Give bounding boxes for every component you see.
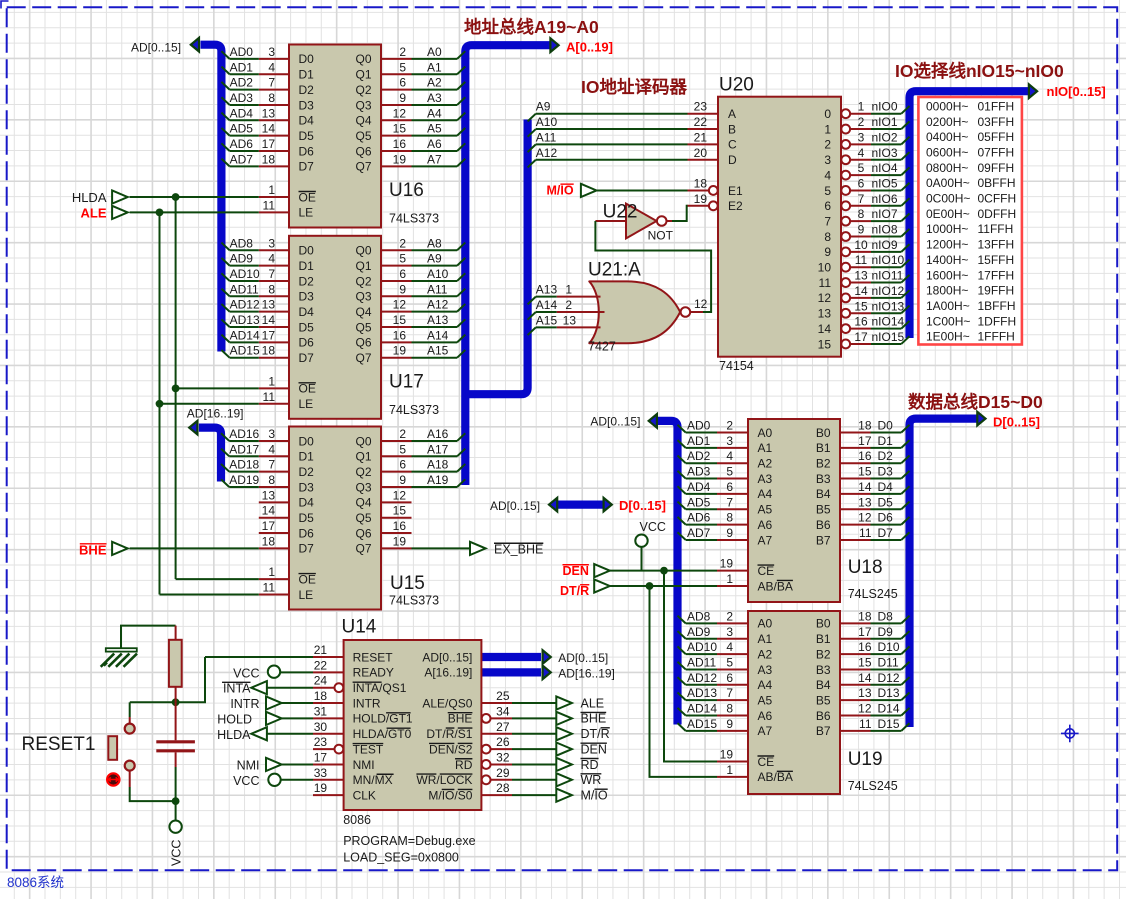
svg-text:Q7: Q7 — [355, 160, 371, 174]
wire A19 — [412, 486, 458, 488]
bus tap AD19 — [221, 479, 229, 487]
svg-text:5: 5 — [858, 161, 865, 175]
svg-text:0: 0 — [824, 107, 831, 121]
pin name overlines of U14 right — [448, 712, 473, 714]
svg-text:BHE: BHE — [79, 543, 107, 558]
wire A15 — [412, 357, 458, 359]
svg-text:0E00H~: 0E00H~ — [926, 207, 970, 221]
bus tap D14 — [901, 708, 909, 716]
svg-text:4: 4 — [726, 449, 733, 463]
bus A[0..19] — [465, 45, 550, 485]
svg-text:9: 9 — [399, 282, 406, 296]
wire INTA — [267, 687, 313, 689]
svg-text:AB/BA: AB/BA — [758, 579, 793, 593]
svg-text:A6: A6 — [758, 518, 773, 532]
svg-text:34: 34 — [496, 704, 510, 718]
svg-text:15: 15 — [854, 299, 868, 313]
wire AD8 — [230, 249, 259, 251]
svg-text:6: 6 — [726, 480, 733, 494]
wire AD14 — [230, 341, 259, 343]
svg-text:INTA/QS1: INTA/QS1 — [353, 681, 407, 695]
svg-text:nIO14: nIO14 — [872, 315, 905, 329]
svg-text:B3: B3 — [816, 663, 831, 677]
pin RD of U14 — [482, 760, 491, 769]
svg-text:B0: B0 — [816, 617, 831, 631]
bus tap A19 — [457, 479, 465, 487]
svg-text:A1: A1 — [427, 60, 442, 74]
svg-text:nIO2: nIO2 — [872, 130, 898, 144]
bus tap D13 — [901, 692, 909, 700]
svg-text:15: 15 — [858, 655, 872, 669]
svg-text:数据总线D15~D0: 数据总线D15~D0 — [908, 392, 1043, 412]
svg-text:D7: D7 — [299, 351, 315, 365]
svg-text:9: 9 — [399, 473, 406, 487]
svg-text:0600H~: 0600H~ — [926, 145, 968, 159]
svg-text:1000H~: 1000H~ — [926, 222, 968, 236]
wire A18 — [412, 471, 458, 473]
svg-text:OE: OE — [299, 190, 316, 204]
svg-text:nIO11: nIO11 — [872, 269, 904, 283]
svg-text:19: 19 — [314, 781, 328, 795]
svg-text:16: 16 — [393, 137, 407, 151]
svg-text:AD4: AD4 — [687, 480, 711, 494]
OR gate U21:A 7427 — [557, 281, 703, 343]
transceiver U19 74LS245 — [717, 609, 872, 794]
bus tap D1 — [901, 440, 909, 448]
svg-text:A4: A4 — [427, 106, 442, 120]
svg-text:18: 18 — [262, 344, 276, 358]
svg-text:0400H~: 0400H~ — [926, 130, 968, 144]
svg-text:D6: D6 — [299, 336, 315, 350]
svg-text:A5: A5 — [758, 503, 773, 517]
svg-text:E1: E1 — [728, 184, 743, 198]
svg-text:ALE: ALE — [81, 206, 107, 221]
bus arrow A[16..19] from U14 — [543, 666, 551, 680]
svg-text:U17: U17 — [389, 371, 424, 392]
svg-text:10: 10 — [854, 238, 868, 252]
svg-text:23: 23 — [314, 735, 328, 749]
svg-text:0BFFH: 0BFFH — [978, 176, 1016, 190]
svg-text:Q1: Q1 — [355, 259, 371, 273]
bus tap AD1 — [678, 440, 686, 448]
wire AD13 — [686, 699, 717, 701]
bus tap AD17 — [221, 449, 229, 457]
svg-text:8: 8 — [824, 230, 831, 244]
wire AD17 — [229, 455, 259, 457]
svg-text:4: 4 — [268, 252, 275, 266]
wire A13 — [412, 326, 458, 328]
svg-text:A4: A4 — [758, 487, 773, 501]
wire D15 — [871, 730, 902, 732]
svg-text:D7: D7 — [878, 526, 894, 540]
svg-text:13: 13 — [262, 106, 276, 120]
bus tap AD3 — [678, 471, 686, 479]
bus tap AD7 — [221, 159, 229, 167]
wire U21 output to U22 input — [595, 221, 711, 312]
svg-text:Q6: Q6 — [355, 144, 371, 158]
svg-text:5: 5 — [726, 465, 733, 479]
svg-text:D8: D8 — [878, 609, 894, 623]
svg-text:AD[16..19]: AD[16..19] — [187, 407, 244, 421]
svg-text:A3: A3 — [758, 663, 773, 677]
svg-text:D0: D0 — [878, 419, 894, 433]
wire AD1 — [230, 73, 259, 75]
bus D[0..15] — [910, 419, 978, 727]
bus tap AD11 — [678, 662, 686, 670]
bus tap AD15 — [678, 723, 686, 731]
wire AD11 — [686, 668, 717, 670]
svg-text:22: 22 — [314, 658, 328, 672]
terminal NMI — [266, 758, 282, 771]
svg-text:3: 3 — [268, 45, 275, 59]
svg-text:AD5: AD5 — [230, 122, 254, 136]
bus tap D11 — [901, 662, 909, 670]
svg-text:4: 4 — [858, 146, 865, 160]
svg-text:D1: D1 — [299, 68, 315, 82]
svg-text:3: 3 — [858, 130, 865, 144]
svg-text:地址总线A19~A0: 地址总线A19~A0 — [464, 17, 599, 37]
svg-text:A11: A11 — [536, 130, 557, 144]
svg-text:AD13: AD13 — [230, 313, 260, 327]
svg-text:Q5: Q5 — [355, 320, 371, 334]
svg-text:ALE/QS0: ALE/QS0 — [422, 696, 472, 710]
bus tap AD12 — [221, 304, 229, 312]
bus tap AD12 — [678, 677, 686, 685]
svg-text:B5: B5 — [816, 503, 831, 517]
svg-text:B7: B7 — [816, 533, 831, 547]
svg-text:D12: D12 — [878, 671, 900, 685]
bus tap A10 — [528, 129, 536, 137]
wire HLDA vertical — [175, 197, 177, 579]
svg-text:A17: A17 — [427, 442, 449, 456]
svg-text:D1: D1 — [299, 450, 315, 464]
bus tap AD13 — [678, 692, 686, 700]
svg-text:A5: A5 — [758, 693, 773, 707]
wire nIO5 — [871, 189, 901, 191]
svg-text:B7: B7 — [816, 724, 831, 738]
svg-text:AD13: AD13 — [687, 686, 717, 700]
terminal ALE — [112, 206, 128, 219]
bus arrow AD[0..15] top-left — [191, 38, 199, 52]
wire RESET vertical — [130, 657, 205, 702]
wire A0 — [412, 58, 458, 60]
svg-text:1FFFH: 1FFFH — [978, 330, 1015, 344]
bus arrow AD[0..15] at transceivers — [649, 414, 657, 428]
svg-text:9: 9 — [726, 717, 733, 731]
svg-text:7: 7 — [268, 267, 275, 281]
wire A9 to U20 — [536, 113, 688, 115]
svg-text:A15: A15 — [427, 344, 449, 358]
svg-text:18: 18 — [314, 689, 328, 703]
svg-text:1400H~: 1400H~ — [926, 253, 968, 267]
wire nIO6 — [871, 205, 901, 207]
wire A5 — [412, 135, 458, 137]
svg-text:AD16: AD16 — [229, 427, 259, 441]
svg-text:17: 17 — [262, 519, 276, 533]
wire A2 — [412, 89, 458, 91]
terminal INTR — [266, 696, 282, 709]
svg-text:M/IO: M/IO — [547, 183, 574, 197]
svg-text:17: 17 — [858, 434, 872, 448]
svg-text:6: 6 — [399, 458, 406, 472]
svg-text:nIO15: nIO15 — [872, 330, 905, 344]
wire D9 — [871, 638, 902, 640]
svg-text:6: 6 — [399, 267, 406, 281]
svg-text:IO选择线nIO15~nIO0: IO选择线nIO15~nIO0 — [895, 61, 1064, 81]
bus tap D12 — [901, 677, 909, 685]
svg-text:11: 11 — [263, 580, 276, 594]
svg-text:OE: OE — [299, 572, 316, 586]
svg-text:RESET: RESET — [353, 650, 394, 664]
bus tap AD7 — [678, 532, 686, 540]
svg-text:6: 6 — [858, 176, 865, 190]
svg-text:B2: B2 — [816, 457, 831, 471]
svg-text:A1: A1 — [758, 441, 773, 455]
svg-text:12: 12 — [393, 106, 407, 120]
bus tap A3 — [457, 97, 465, 105]
wire AD7 — [686, 539, 717, 541]
svg-text:74LS373: 74LS373 — [389, 212, 439, 226]
svg-text:A14: A14 — [427, 328, 449, 342]
wire nIO8 — [871, 236, 901, 238]
svg-text:11: 11 — [263, 390, 276, 404]
svg-text:1E00H~: 1E00H~ — [926, 330, 970, 344]
junction — [156, 400, 164, 408]
svg-text:1200H~: 1200H~ — [926, 238, 968, 252]
svg-text:0A00H~: 0A00H~ — [926, 176, 970, 190]
bus tap A2 — [457, 82, 465, 90]
latch U15 74LS373 — [259, 427, 412, 610]
svg-text:D2: D2 — [878, 449, 894, 463]
wire D13 — [871, 699, 902, 701]
svg-text:A12: A12 — [427, 298, 449, 312]
wire nIO10 — [871, 266, 901, 268]
svg-text:A[16..19]: A[16..19] — [424, 666, 472, 680]
svg-text:18: 18 — [858, 609, 872, 623]
svg-text:A6: A6 — [758, 709, 773, 723]
bus arrow AD[16..19] — [189, 421, 197, 435]
wire HLDA at U14 — [267, 733, 313, 735]
bus tap AD18 — [221, 464, 229, 472]
svg-text:B4: B4 — [816, 487, 831, 501]
svg-text:D5: D5 — [299, 129, 315, 143]
terminal DEN — [594, 564, 610, 577]
wire A10 to U20 — [536, 128, 688, 130]
junction — [156, 209, 164, 217]
svg-text:PROGRAM=Debug.exe: PROGRAM=Debug.exe — [343, 834, 475, 848]
svg-text:17FFH: 17FFH — [978, 268, 1015, 282]
svg-text:AD19: AD19 — [229, 473, 259, 487]
svg-text:17: 17 — [314, 750, 328, 764]
push button RESET1 — [108, 717, 134, 787]
power VCC at READY — [268, 666, 280, 678]
svg-text:Q7: Q7 — [355, 542, 371, 556]
svg-text:A2: A2 — [427, 76, 442, 90]
wire D12 — [871, 684, 902, 686]
svg-text:DT/R: DT/R — [560, 584, 589, 598]
svg-text:D1: D1 — [878, 434, 894, 448]
svg-text:32: 32 — [496, 750, 510, 764]
wire nIO11 — [871, 282, 901, 284]
wire AD4 — [230, 119, 259, 121]
svg-text:U19: U19 — [848, 749, 883, 770]
wire D3 — [871, 478, 902, 480]
svg-text:17: 17 — [854, 330, 868, 344]
svg-text:CE: CE — [758, 755, 775, 769]
svg-text:AD10: AD10 — [687, 640, 717, 654]
svg-text:A5: A5 — [427, 122, 442, 136]
wire AD2 — [686, 462, 717, 464]
wire nIO15 — [871, 343, 901, 345]
svg-text:1: 1 — [268, 183, 275, 197]
svg-text:Q0: Q0 — [355, 52, 371, 66]
terminal M/IO — [581, 184, 597, 197]
svg-text:6: 6 — [726, 671, 733, 685]
svg-text:13: 13 — [563, 313, 577, 327]
bus tap AD5 — [221, 128, 229, 136]
svg-text:5: 5 — [399, 252, 406, 266]
bus nIO[0..15] — [910, 91, 1029, 338]
wire AD1 — [686, 447, 717, 449]
svg-text:Q5: Q5 — [355, 511, 371, 525]
svg-text:D7: D7 — [299, 160, 315, 174]
svg-text:DEN/S2: DEN/S2 — [429, 742, 473, 756]
sheet corner mark — [1, 1, 9, 9]
wire D10 — [871, 653, 902, 655]
bus tap AD3 — [221, 97, 229, 105]
bus tap D6 — [901, 517, 909, 525]
svg-text:VCC: VCC — [640, 520, 666, 534]
bus tap A12 — [457, 304, 465, 312]
svg-text:14: 14 — [858, 480, 872, 494]
svg-text:Q0: Q0 — [355, 434, 371, 448]
svg-text:1: 1 — [726, 763, 733, 777]
svg-text:AD[0..15]: AD[0..15] — [422, 650, 472, 664]
svg-text:6: 6 — [824, 199, 831, 213]
svg-text:30: 30 — [314, 720, 328, 734]
bus tap A5 — [457, 128, 465, 136]
wire nIO2 — [871, 143, 901, 145]
svg-text:AD9: AD9 — [687, 625, 711, 639]
svg-text:31: 31 — [314, 704, 328, 718]
svg-text:nIO0: nIO0 — [872, 100, 898, 114]
bus tap D10 — [901, 646, 909, 654]
svg-text:NMI: NMI — [237, 759, 260, 773]
wire AD9 — [230, 265, 259, 267]
svg-text:13: 13 — [262, 488, 276, 502]
svg-text:12: 12 — [858, 511, 872, 525]
wire D2 — [871, 462, 902, 464]
svg-text:05FFH: 05FFH — [978, 130, 1015, 144]
wire AD0 — [686, 432, 717, 434]
svg-text:B1: B1 — [816, 632, 831, 646]
svg-text:1800H~: 1800H~ — [926, 284, 968, 298]
svg-text:D3: D3 — [299, 98, 315, 112]
wire D8 — [871, 622, 902, 624]
svg-text:D3: D3 — [878, 465, 894, 479]
svg-text:D0: D0 — [299, 434, 315, 448]
svg-text:nIO[0..15]: nIO[0..15] — [1047, 84, 1106, 99]
terminal INTA — [251, 681, 267, 694]
bus tap A17 — [457, 449, 465, 457]
bus tap nIO8 — [901, 229, 909, 237]
svg-text:21: 21 — [694, 130, 708, 144]
svg-text:A9: A9 — [536, 100, 551, 114]
svg-text:1: 1 — [268, 374, 275, 388]
svg-text:AD9: AD9 — [230, 252, 254, 266]
svg-text:7: 7 — [268, 458, 275, 472]
svg-text:B3: B3 — [816, 472, 831, 486]
svg-text:U20: U20 — [719, 75, 754, 96]
wire AD13 — [230, 326, 259, 328]
svg-text:16: 16 — [393, 519, 407, 533]
wire AD9 — [686, 638, 717, 640]
bus tap nIO2 — [901, 137, 909, 145]
terminal ALE — [556, 696, 572, 709]
bus tap A11 — [457, 289, 465, 297]
wire WR — [512, 779, 556, 781]
svg-text:BHE: BHE — [581, 712, 607, 726]
svg-text:AD0: AD0 — [230, 45, 254, 59]
svg-text:Q0: Q0 — [355, 244, 371, 258]
wire A9 — [412, 265, 458, 267]
svg-text:4: 4 — [268, 442, 275, 456]
wire DEN to U18 CE — [610, 570, 717, 572]
svg-text:Q2: Q2 — [355, 465, 371, 479]
svg-text:13: 13 — [858, 686, 872, 700]
junction — [172, 698, 180, 706]
bus tap AD13 — [221, 319, 229, 327]
svg-text:D2: D2 — [299, 274, 315, 288]
svg-text:1: 1 — [726, 572, 733, 586]
svg-text:OE: OE — [299, 382, 316, 396]
svg-text:5: 5 — [824, 184, 831, 198]
bus tap D4 — [901, 486, 909, 494]
junction — [660, 567, 668, 575]
bus tap A16 — [457, 433, 465, 441]
svg-text:AD11: AD11 — [230, 282, 259, 296]
svg-text:20: 20 — [694, 146, 708, 160]
svg-text:DT/R/S1: DT/R/S1 — [426, 727, 472, 741]
power VCC at U18 — [635, 535, 647, 547]
wire D1 — [871, 447, 902, 449]
button actuator marker — [107, 773, 119, 785]
svg-text:A0: A0 — [427, 45, 442, 59]
svg-text:AD15: AD15 — [687, 717, 717, 731]
terminal M/IO — [556, 789, 572, 802]
wire ALE — [512, 702, 556, 704]
svg-text:VCC: VCC — [233, 774, 259, 788]
svg-text:nIO5: nIO5 — [872, 176, 898, 190]
wire A16 — [412, 440, 458, 442]
bus tap AD0 — [221, 51, 229, 59]
svg-text:BHE: BHE — [448, 712, 473, 726]
svg-text:1DFFH: 1DFFH — [978, 314, 1017, 328]
svg-text:B: B — [728, 122, 736, 136]
svg-text:11FFH: 11FFH — [978, 222, 1014, 236]
bus tap D3 — [901, 471, 909, 479]
wire RD — [512, 763, 556, 765]
svg-text:1BFFH: 1BFFH — [978, 299, 1016, 313]
svg-text:HOLD/GT1: HOLD/GT1 — [353, 712, 413, 726]
svg-text:14: 14 — [262, 313, 276, 327]
bus tap AD4 — [678, 486, 686, 494]
wire nIO1 — [871, 128, 901, 130]
wire M/IO to U20 E1 — [597, 189, 688, 191]
wire nIO12 — [871, 297, 901, 299]
wire AD15 — [686, 730, 717, 732]
wire D6 — [871, 524, 902, 526]
